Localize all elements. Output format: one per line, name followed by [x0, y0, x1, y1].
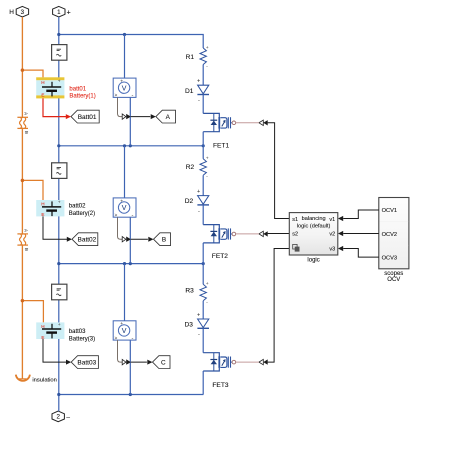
svg-text:FET3: FET3	[212, 382, 228, 389]
svg-text:FET2: FET2	[212, 253, 228, 260]
svg-text:A: A	[166, 114, 171, 121]
battery batt02 Battery(2)	[36, 200, 64, 216]
transistor FET1	[203, 113, 236, 131]
wire: FET2 source down to rail	[202, 243, 204, 264]
svg-text:Batt02: Batt02	[78, 236, 97, 243]
svg-text:FET1: FET1	[213, 143, 229, 150]
svg-text:R2: R2	[186, 164, 195, 171]
wire: OCV3 to v3	[343, 249, 379, 258]
PS-signal converter arrows row 2	[122, 237, 126, 242]
junction: rail2 / FET2 source column	[202, 262, 205, 265]
wire: battery3 E output	[43, 339, 66, 362]
resistor R3	[200, 284, 206, 301]
wire: FET3 source down to rail	[202, 371, 204, 395]
junction: rail3 / sensor3 minus	[129, 393, 132, 396]
converter arrows at FET3 gate	[259, 359, 263, 364]
rail 3 (bottom, to port 2)	[59, 394, 204, 396]
svg-text:H: H	[41, 201, 44, 206]
battery 1 plates symbol	[42, 82, 61, 97]
junction: rail1 / sensor1 minus	[129, 144, 132, 147]
wire: orange thermal bus from port 3 down to insulation	[21, 17, 23, 379]
svg-text:–: –	[66, 414, 70, 421]
wire: logic s1 output to FET1 gate	[268, 123, 290, 219]
wire: signal to tag A	[131, 116, 150, 118]
svg-text:3: 3	[21, 9, 25, 16]
inline block Fd2 on main bus	[52, 163, 67, 179]
svg-text:Battery(2): Battery(2)	[69, 211, 95, 217]
diode D2	[197, 189, 209, 214]
arrowhead into tag A	[151, 114, 156, 119]
wire: R3 to D3	[202, 301, 204, 319]
wire: sensor2 PS output	[118, 217, 123, 239]
port 2 (-)	[52, 411, 64, 422]
wire: OCV1 to v1	[343, 210, 379, 219]
arrowhead v2 input	[338, 231, 343, 236]
svg-text:E: E	[41, 93, 44, 98]
wire: sensor1 feed from rail	[124, 35, 126, 79]
converter arrows at FET1 gate	[259, 120, 263, 125]
junction: bus / top rail	[57, 33, 60, 36]
wire: sensor3 PS output	[118, 340, 123, 362]
arrowhead into tag B	[148, 237, 153, 242]
arrowhead v1 input	[338, 216, 343, 221]
wire: sensor3 minus to rail below	[129, 340, 131, 394]
svg-text:+: +	[120, 198, 123, 203]
port 1 (+)	[53, 6, 65, 17]
svg-text:A: A	[24, 112, 29, 115]
rail 1 (between cell 1 and 2)	[59, 145, 203, 147]
PS-signal converter arrows row 1	[122, 114, 126, 119]
svg-text:+: +	[197, 79, 200, 85]
goto tag A	[156, 110, 176, 123]
svg-text:D3: D3	[185, 321, 194, 328]
junction: bus / rail1	[57, 144, 60, 147]
converter arrows at FET2 gate	[259, 231, 263, 236]
svg-text:Battery(1): Battery(1)	[69, 93, 95, 99]
svg-text:V: V	[122, 205, 127, 212]
wire: logic s3 output to FET3 gate	[268, 249, 290, 363]
voltage sensor V3	[113, 321, 136, 342]
inline block Fd3 on main bus	[52, 284, 67, 300]
wire: sensor2 minus to rail below	[129, 217, 131, 263]
scope block scopes/OCV	[379, 198, 409, 269]
junction: orange bus / battery2 branch	[21, 179, 25, 183]
junction: rail2 / sensor3 feed	[123, 262, 126, 265]
svg-text:+: +	[120, 79, 123, 84]
svg-text:H: H	[9, 9, 14, 16]
svg-text:>: >	[115, 93, 118, 98]
goto tag Batt02	[72, 233, 98, 246]
wire: D1 to FET1 drain	[202, 95, 204, 114]
battery batt01 Battery(1) highlighted	[36, 77, 64, 98]
diode D3	[197, 312, 209, 337]
wire: sensor3 feed from rail	[124, 264, 126, 321]
svg-text:>: >	[115, 213, 118, 218]
svg-text:v3: v3	[329, 247, 335, 253]
wire: OCV2 to v2	[343, 233, 379, 235]
svg-text:batt01: batt01	[69, 86, 86, 92]
svg-text:v2: v2	[329, 232, 335, 238]
wire: logic s2 output to FET2 gate	[268, 233, 290, 235]
wire: signal to tag C	[131, 361, 147, 363]
junction: rail1 / sensor2 feed	[123, 144, 126, 147]
svg-text:>: >	[115, 335, 118, 340]
svg-text:Batt01: Batt01	[78, 114, 97, 121]
wire: PS gate line FET1	[236, 122, 259, 124]
wire: D2 to FET2 drain	[202, 205, 204, 225]
wire: sensor1 PS output	[118, 97, 123, 116]
svg-text:+: +	[67, 9, 71, 16]
resistor R1	[200, 48, 206, 65]
wire: R2 to D2	[202, 175, 204, 195]
junction: bus / rail2	[57, 262, 60, 265]
voltage sensor V2	[113, 198, 136, 219]
svg-text:batt02: batt02	[69, 204, 86, 210]
svg-text:B: B	[24, 248, 29, 251]
wire: main battery string bus from port 1 to port 2	[58, 17, 60, 411]
svg-text:batt03: batt03	[69, 329, 86, 335]
svg-text:scopes: scopes	[384, 271, 403, 277]
battery 2 plates symbol	[42, 201, 61, 216]
wire: sensor1 minus to rail below	[129, 97, 131, 145]
svg-text:Batt03: Batt03	[77, 359, 96, 366]
svg-text:logic: logic	[307, 257, 319, 263]
svg-text:s1: s1	[292, 217, 298, 223]
insulation block (thermal reference)	[16, 375, 30, 381]
arrowhead into Batt01	[66, 114, 71, 119]
wire: PS gate line FET3	[236, 361, 259, 363]
svg-text:2: 2	[56, 414, 60, 421]
svg-text:OCV1: OCV1	[382, 208, 398, 214]
subsystem U1 balancing logic (default)	[289, 213, 338, 255]
goto tag C	[153, 356, 171, 369]
wire: top rail from bus to R1 column	[59, 35, 203, 49]
wire: orange branch to battery 2 H port	[22, 180, 43, 200]
wire: column segment above R2	[202, 146, 204, 159]
port 3 (H, thermal)	[16, 6, 28, 17]
svg-text:OCV2: OCV2	[382, 232, 398, 238]
resistor R2	[200, 159, 206, 176]
svg-text:H: H	[41, 324, 44, 329]
svg-text:V: V	[122, 85, 127, 92]
wire: orange branch to battery 1 H port	[22, 70, 43, 77]
wire: battery2 E output	[43, 216, 67, 239]
thermal resistor pair A/B (upper)	[17, 117, 28, 128]
svg-text:R1: R1	[186, 54, 195, 61]
thermal resistor pair A/B (lower)	[17, 234, 28, 245]
wire: PS gate line FET2	[236, 233, 259, 235]
svg-text:1: 1	[57, 9, 61, 16]
wire: R1 to D1	[202, 65, 204, 86]
goto tag Batt01	[71, 110, 99, 123]
svg-text:D2: D2	[185, 198, 194, 205]
voltage sensor V1	[113, 78, 136, 99]
svg-text:+: +	[120, 321, 123, 326]
svg-text:+: +	[197, 189, 200, 195]
wire: orange branch to battery 3 H port	[22, 301, 43, 323]
goto tag Batt03	[71, 356, 98, 369]
svg-text:OCV3: OCV3	[382, 255, 398, 261]
junction: rail2 / sensor2 minus	[129, 262, 132, 265]
svg-text:insulation: insulation	[32, 378, 57, 384]
junction: rail1 / FET1 source column	[202, 144, 205, 147]
svg-text:balancing: balancing	[302, 216, 326, 222]
transistor FET2	[203, 225, 236, 243]
junction: orange bus / battery3 branch	[21, 299, 25, 303]
arrowhead into Batt02	[67, 237, 72, 242]
svg-text:A: A	[24, 229, 29, 232]
inline block Fd1 on main bus	[52, 45, 67, 61]
arrowhead into Batt03	[66, 360, 71, 365]
junction: orange bus / battery1 branch	[21, 68, 25, 72]
svg-text:V: V	[122, 328, 127, 335]
svg-text:s2: s2	[292, 232, 298, 238]
svg-text:D1: D1	[185, 88, 194, 95]
diode D1	[197, 79, 209, 104]
wire: signal to tag B	[131, 238, 148, 240]
arrowhead v3 input	[338, 246, 343, 251]
svg-text:B: B	[24, 131, 29, 134]
PS-signal converter arrows row 3	[122, 359, 126, 364]
svg-text:H: H	[41, 80, 44, 85]
arrowhead into tag C	[147, 360, 152, 365]
svg-text:logic (default): logic (default)	[297, 223, 331, 229]
wire: column segment above R3	[202, 264, 204, 285]
rail 2 (between cell 2 and 3)	[59, 263, 203, 265]
svg-text:Battery(3): Battery(3)	[69, 336, 95, 342]
battery batt03 Battery(3)	[36, 322, 64, 339]
wire: D3 to FET3 drain	[202, 328, 204, 352]
battery 3 plates symbol	[42, 324, 61, 339]
svg-text:v1: v1	[329, 217, 335, 223]
wire: battery1 E output (red, highlighted)	[43, 98, 66, 116]
goto tag B	[154, 233, 171, 246]
svg-text:OCV: OCV	[387, 277, 400, 283]
svg-text:C: C	[161, 359, 166, 366]
wire: sensor2 feed from rail	[124, 146, 126, 198]
svg-text:+: +	[197, 312, 200, 318]
svg-text:R3: R3	[185, 288, 194, 295]
transistor FET3	[203, 353, 236, 371]
junction: bus / rail3	[57, 393, 60, 396]
svg-text:B: B	[162, 236, 166, 243]
junction: top rail / sensor1 feed	[123, 33, 126, 36]
wire: FET1 source down to rail	[202, 132, 204, 146]
